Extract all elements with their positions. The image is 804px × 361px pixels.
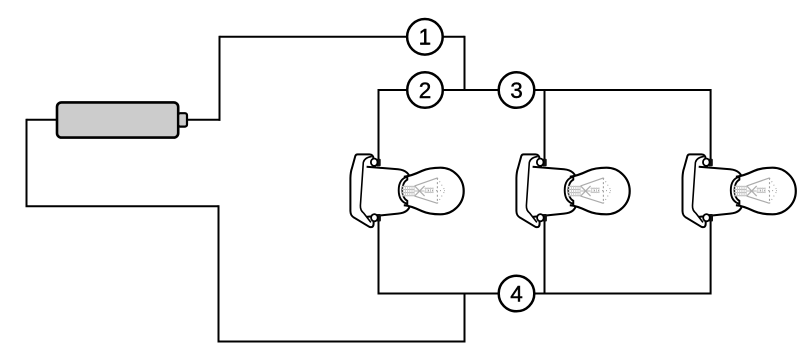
wire: battery positive lead (y=119.8)	[187, 119, 221, 121]
wire: bottom return riser (x=464.5)	[464, 294, 466, 343]
battery BT1	[57, 102, 187, 137]
node 4	[499, 276, 535, 312]
lamp L2	[516, 154, 629, 227]
wire: lower parallel rail (y=293.5)	[379, 293, 711, 295]
node 2	[407, 72, 443, 108]
wire: upper parallel rail (y=90)	[379, 89, 711, 91]
node 1	[407, 19, 443, 55]
wire: lamp 3 bottom lead (x=710.6)	[710, 216, 712, 295]
wire: vertical battery positive riser (x=219.5)	[219, 36, 221, 121]
wire: bottom return horizontal (y=341.5)	[218, 341, 465, 343]
svg-text:2: 2	[419, 78, 432, 103]
svg-text:1: 1	[419, 25, 432, 50]
wire: top rail from battery positive to node 1 (y=36.8)	[220, 36, 465, 38]
lamp L3	[683, 154, 796, 227]
wire: lamp 2 top lead (x=544.5)	[544, 89, 546, 164]
wire: battery negative lead (y=119.8)	[27, 119, 59, 121]
wire: left vertical drop (x=26.5)	[26, 119, 28, 207]
wire: middle-left horizontal (y=206.3)	[26, 205, 219, 207]
wire: lamp 2 bottom lead (x=544.5)	[544, 216, 546, 295]
svg-text:4: 4	[510, 281, 523, 306]
wire: node1 to parallel rail drop (x=464.5)	[464, 36, 466, 91]
wire: lamp 1 top lead (x=378.5)	[378, 89, 380, 164]
wire: lamp 1 bottom lead (x=378.5)	[378, 216, 380, 295]
lamp L1	[350, 154, 463, 227]
wire: lower-left vertical (x=218.5)	[218, 205, 220, 341]
node 3	[499, 72, 535, 108]
wire: lamp 3 top lead (x=710.6)	[710, 89, 712, 164]
svg-text:3: 3	[510, 78, 523, 103]
